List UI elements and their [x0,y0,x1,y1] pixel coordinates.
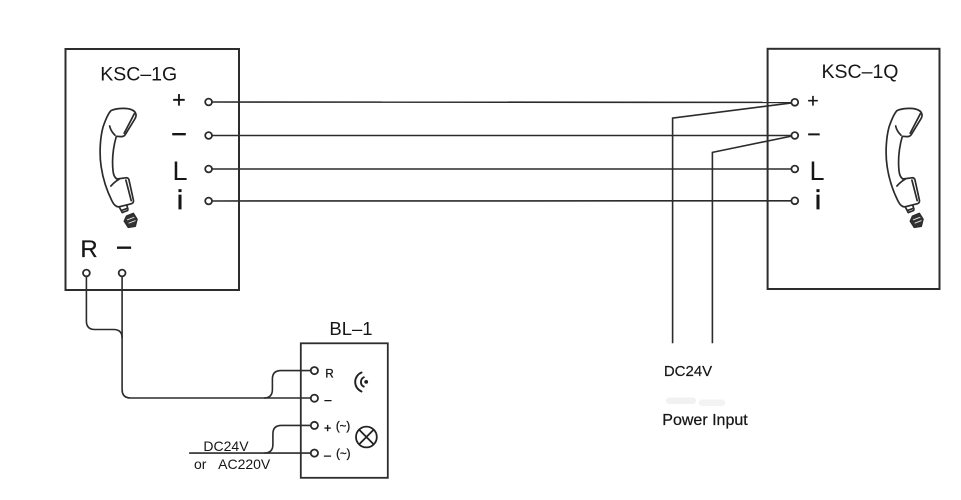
svg-text:–: – [324,448,331,462]
terminal i of KSC-1Q [791,197,798,204]
terminal i of KSC-1G [205,198,212,205]
wire i interconnect [212,200,792,202]
svg-text:L: L [809,156,824,186]
terminal - of KSC-1G [205,132,212,139]
svg-text:–: – [325,393,332,407]
terminal -(~) of BL-1 [311,450,318,457]
terminal +(~) of BL-1 [311,422,318,429]
handset icon KSC-1G [100,108,137,227]
svg-text:BL–1: BL–1 [329,318,372,339]
terminal - of KSC-1Q [791,132,798,139]
svg-text:R: R [80,236,97,263]
wire DC24V power left vertical to + [673,103,792,343]
svg-text:KSC–1Q: KSC–1Q [822,61,899,83]
wire from minus terminal of KSC-1G down to BL-1 minus terminal [122,276,311,398]
svg-text:or AC220V: or AC220V [194,456,271,472]
svg-text:Power Input: Power Input [662,412,748,429]
svg-text:DC24V: DC24V [664,363,712,380]
terminal - bottom of KSC-1G [119,270,126,277]
svg-text:R: R [325,369,333,381]
box BL-1 [301,343,388,478]
svg-text:+: + [172,87,185,113]
terminal + of KSC-1Q [791,99,798,106]
terminal R of KSC-1G [83,270,90,277]
svg-text:–: – [173,119,186,145]
terminal - of BL-1 [311,395,318,402]
box KSC-1G [66,49,240,290]
wire DC24V/AC220V supply horizontal to BL-1 minus(~) terminal [189,452,311,454]
terminal R of BL-1 [311,367,318,374]
svg-text:–: – [808,123,819,145]
svg-text:(~): (~) [336,421,351,433]
wire DC24V power right vertical to - [712,136,791,343]
box KSC-1Q [768,49,940,289]
terminal L of KSC-1Q [791,166,798,173]
sound icon in BL-1 [355,373,368,392]
svg-text:+: + [807,90,818,112]
lamp icon in BL-1 [356,427,377,448]
svg-text:i: i [177,185,183,215]
terminal L of KSC-1G [205,166,212,173]
wire branch up to BL-1 plus(~) terminal [264,425,311,453]
svg-text:i: i [815,185,821,215]
wire L interconnect [212,168,792,170]
svg-text:–: – [117,233,131,260]
faint printing smudge [666,398,725,407]
wire from R terminal of KSC-1G down joining minus wire [86,276,122,338]
svg-text:L: L [172,156,187,186]
svg-text:+: + [324,421,331,435]
wire branch up to BL-1 R terminal [264,371,311,398]
svg-text:(~): (~) [336,448,351,460]
handset icon KSC-1Q [886,108,923,227]
svg-text:DC24V: DC24V [203,438,249,454]
svg-text:KSC–1G: KSC–1G [100,64,177,86]
terminal + of KSC-1G [205,99,212,106]
wire + interconnect [212,101,792,103]
wire - interconnect [212,135,792,137]
